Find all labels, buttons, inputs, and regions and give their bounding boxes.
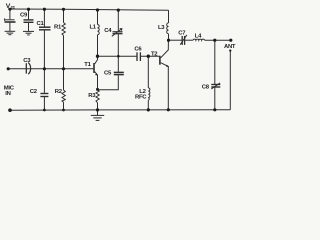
svg-text:RFC: RFC (135, 95, 147, 101)
svg-text:C4: C4 (104, 28, 112, 34)
svg-text:L4: L4 (195, 33, 202, 39)
svg-text:C7: C7 (178, 31, 186, 37)
svg-text:C9: C9 (20, 12, 28, 18)
svg-text:C5: C5 (104, 70, 112, 76)
svg-text:R1: R1 (54, 24, 62, 30)
svg-text:C3: C3 (23, 58, 31, 64)
svg-text:ANT: ANT (224, 44, 236, 50)
svg-text:T2: T2 (151, 52, 158, 58)
svg-text:L1: L1 (90, 25, 97, 31)
svg-text:IN: IN (5, 91, 10, 97)
svg-text:C2: C2 (30, 89, 38, 95)
svg-text:R2: R2 (55, 89, 63, 95)
svg-text:C1: C1 (37, 21, 45, 27)
svg-text:C8: C8 (202, 85, 210, 91)
svg-text:R3: R3 (88, 93, 96, 99)
svg-text:C6: C6 (134, 46, 142, 52)
svg-text:L3: L3 (158, 25, 165, 31)
svg-text:T1: T1 (84, 62, 91, 68)
